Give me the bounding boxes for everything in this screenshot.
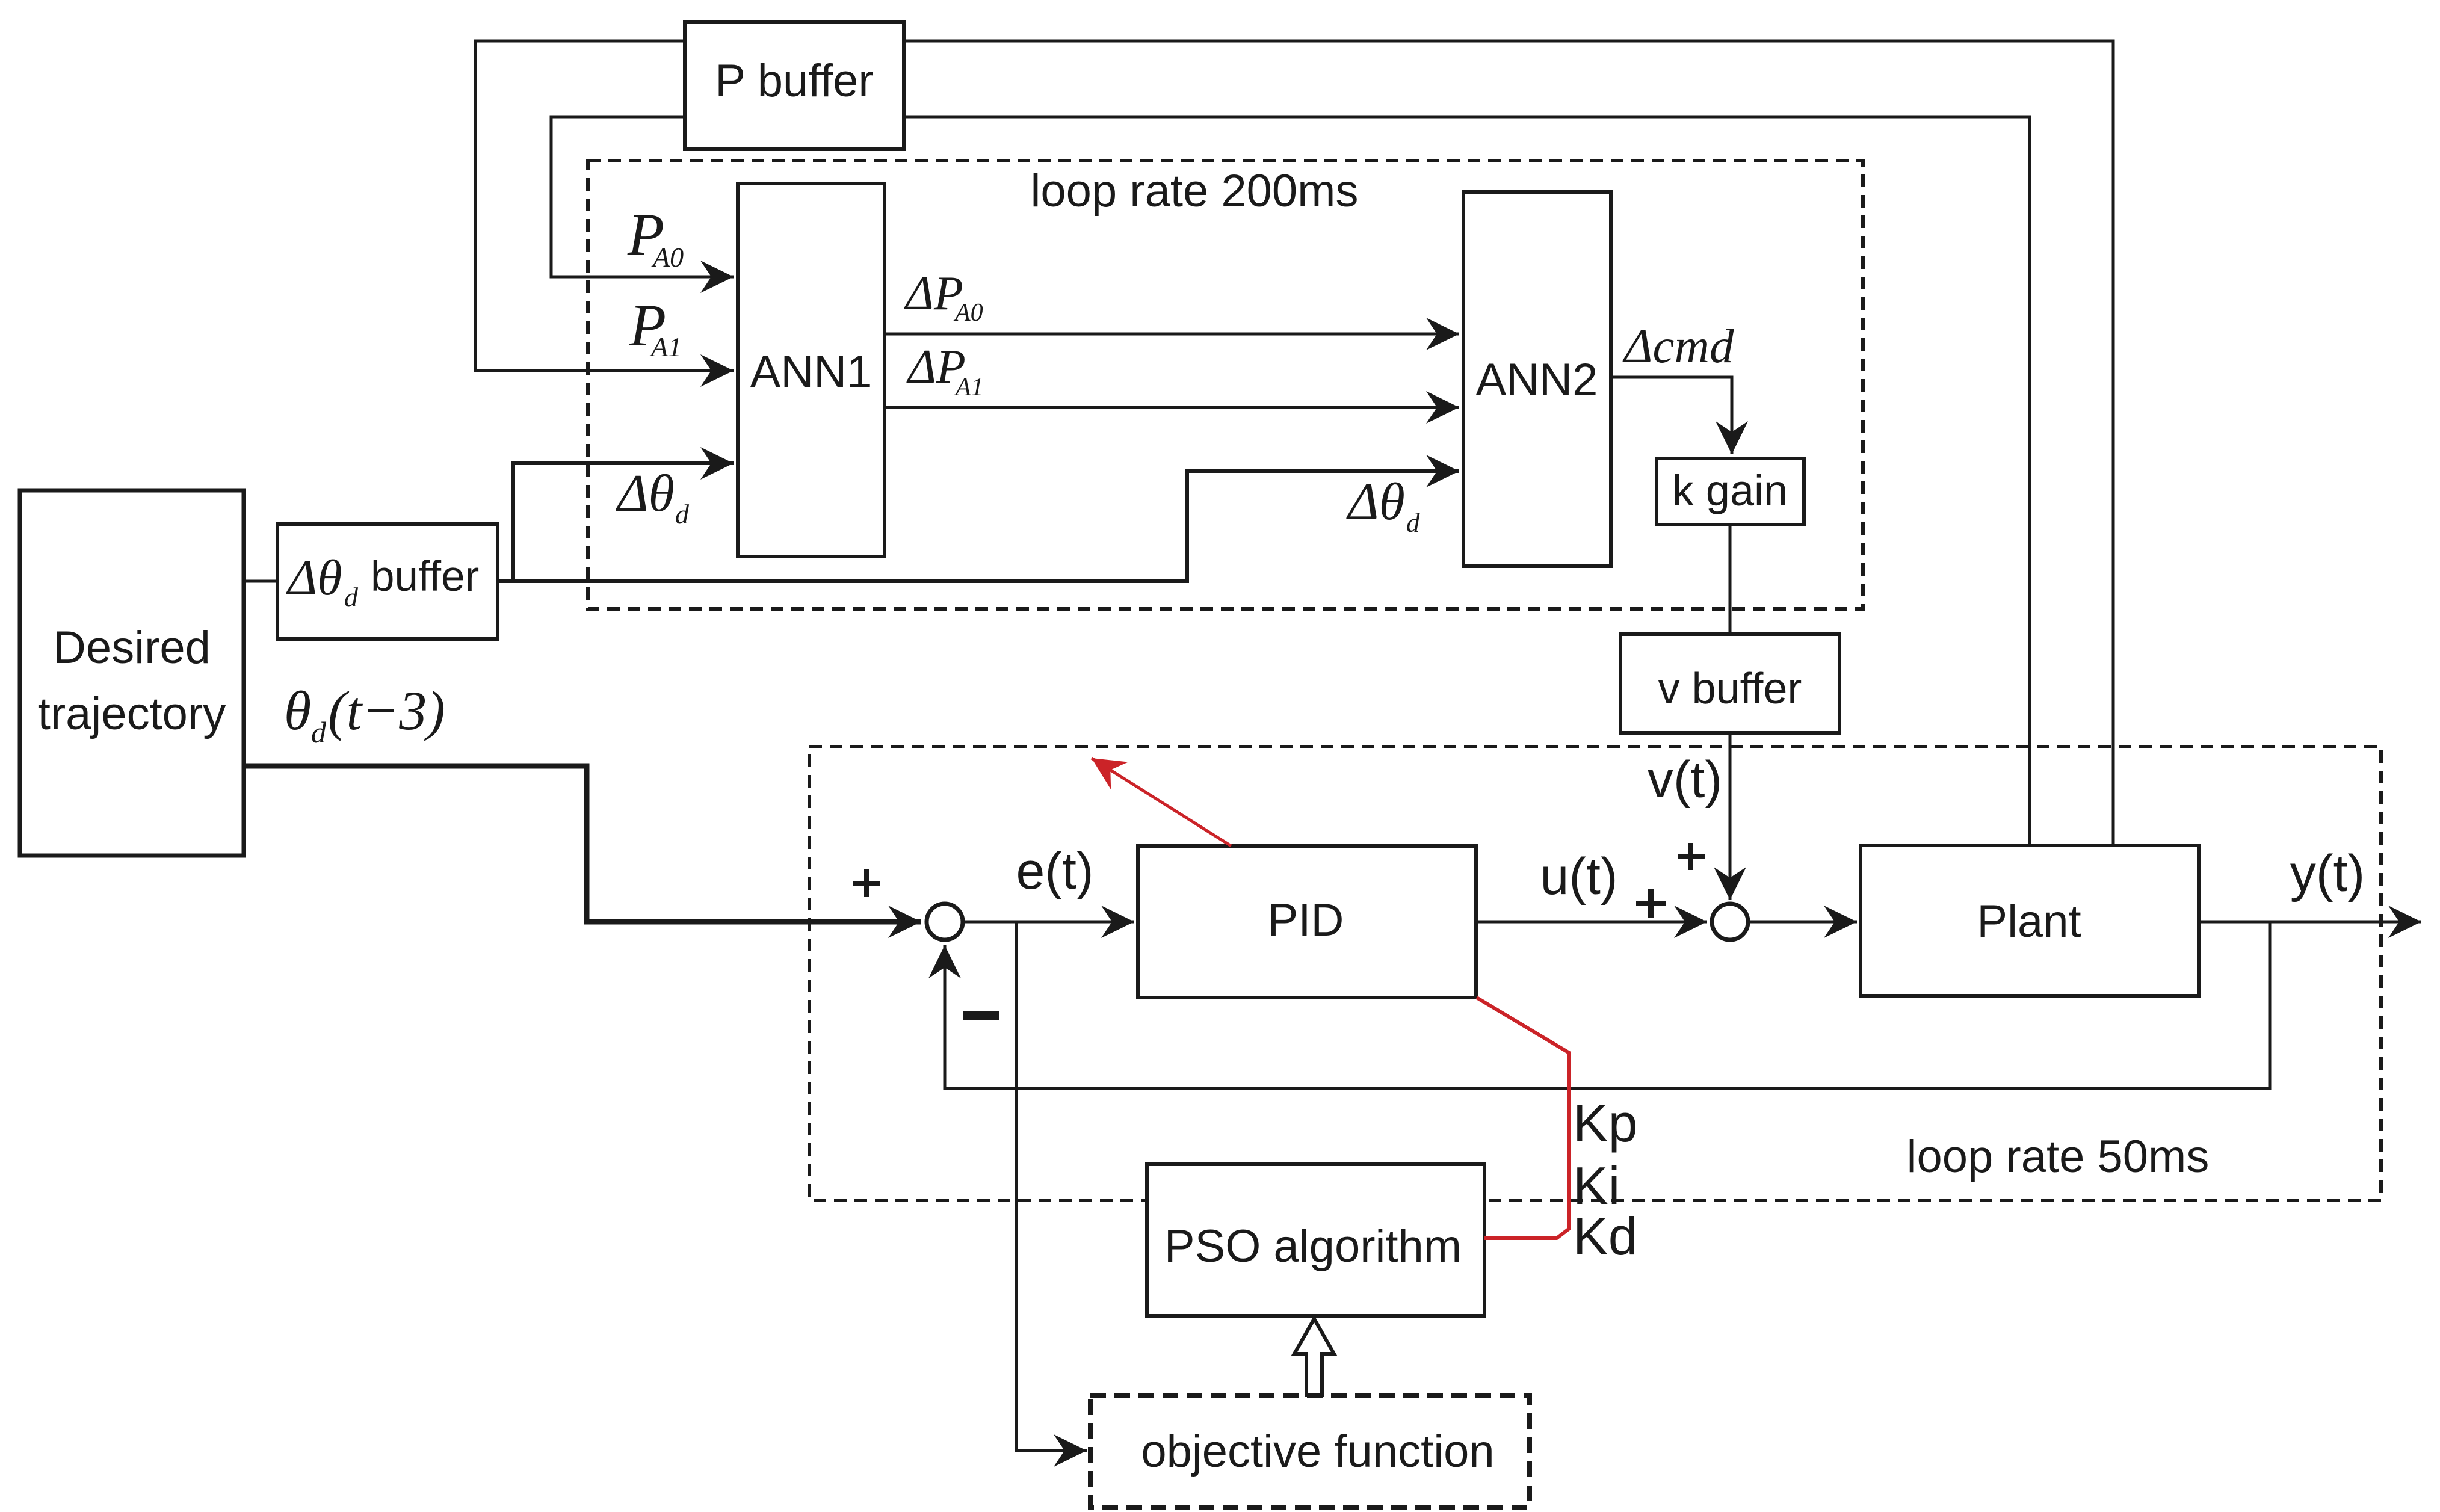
sum junction S1 — [927, 904, 963, 940]
svg-text:trajectory: trajectory — [38, 688, 226, 739]
wire plant to P buffer line B (lower) — [551, 117, 2030, 844]
hollow arrow objective function to PSO — [1294, 1319, 1334, 1395]
svg-text:u(t): u(t) — [1540, 848, 1618, 906]
wire ANN1 output dPA0 to ANN2 — [885, 333, 1459, 336]
svg-text:d: d — [311, 715, 327, 749]
red wire PID gains to PSO — [1477, 998, 1569, 1238]
svg-text:d: d — [344, 582, 359, 613]
minus sign at sum S1 — [963, 1011, 999, 1020]
svg-text:d: d — [675, 499, 690, 529]
svg-text:Δθ: Δθ — [616, 464, 675, 523]
wire sum S2 to Plant — [1750, 921, 1857, 924]
svg-text:buffer: buffer — [371, 553, 479, 600]
box PID — [1138, 846, 1476, 998]
box delta theta_d buffer — [277, 524, 498, 639]
svg-text:v(t): v(t) — [1648, 751, 1722, 809]
plus sign left of sum S2 — [1636, 889, 1666, 918]
sum junction S2 — [1712, 904, 1748, 940]
label delta theta_d at ANN2 — [1346, 473, 1420, 538]
svg-text:Plant: Plant — [1977, 896, 2081, 947]
svg-text:loop rate 50ms: loop rate 50ms — [1907, 1131, 2210, 1182]
box k gain — [1657, 458, 1804, 525]
label P_A1 — [629, 292, 682, 362]
svg-text:A0: A0 — [651, 242, 684, 273]
svg-text:ANN1: ANN1 — [750, 347, 873, 398]
box v buffer — [1620, 634, 1839, 733]
svg-text:objective function: objective function — [1141, 1426, 1494, 1477]
wire sum S1 to PID with e(t) — [965, 921, 1134, 924]
svg-text:A1: A1 — [954, 374, 984, 401]
svg-text:ΔP: ΔP — [904, 267, 963, 320]
svg-text:Desired: Desired — [53, 622, 211, 673]
svg-text:d: d — [1406, 508, 1420, 538]
svg-text:v buffer: v buffer — [1658, 665, 1802, 713]
box PSO algorithm — [1147, 1164, 1484, 1316]
svg-text:θ: θ — [284, 680, 311, 741]
svg-text:(t−3): (t−3) — [328, 680, 445, 741]
svg-text:Kd: Kd — [1573, 1206, 1638, 1266]
wire theta_d(t-3) from desired trajectory to sum junction S1 — [244, 766, 921, 922]
wire desired trajectory to buffer — [241, 580, 280, 583]
svg-text:y(t): y(t) — [2290, 845, 2365, 903]
wire branch buffer output to ANN1 theta input — [513, 463, 734, 581]
box Plant — [1861, 845, 2199, 996]
dashed box loop rate 50ms — [809, 747, 2381, 1200]
wire PID to sum junction S2 with u(t) — [1476, 921, 1707, 924]
svg-text:k gain: k gain — [1672, 467, 1788, 515]
svg-text:Kp: Kp — [1573, 1093, 1638, 1153]
wire feedback from y(t) to sum S1 minus input — [945, 922, 2270, 1088]
wire plant to P buffer line A (upper) — [475, 41, 2113, 844]
label theta_d(t-3) — [284, 680, 445, 749]
box Desired trajectory — [20, 490, 244, 856]
svg-text:A1: A1 — [649, 332, 682, 362]
wire k gain to v buffer to sum junction S2 — [1729, 525, 1732, 900]
svg-text:Δcmd: Δcmd — [1622, 319, 1734, 373]
box P buffer — [685, 22, 904, 149]
wire ANN1 output dPA1 to ANN2 — [885, 406, 1459, 409]
box ANN2 — [1463, 192, 1611, 566]
svg-text:Δθ: Δθ — [286, 550, 342, 606]
svg-text:loop rate 200ms: loop rate 200ms — [1031, 165, 1359, 217]
svg-text:A0: A0 — [953, 299, 983, 327]
svg-text:e(t): e(t) — [1016, 842, 1094, 900]
wire buffer output to ANN2 theta input — [498, 471, 1459, 581]
label dP_A1 — [906, 341, 984, 401]
dashed box loop rate 200ms — [588, 161, 1863, 609]
box ANN1 — [738, 184, 885, 557]
svg-text:Δθ: Δθ — [1346, 473, 1405, 531]
svg-text:ANN2: ANN2 — [1476, 354, 1598, 406]
red arrow PSO tuning to PID — [1092, 758, 1231, 846]
svg-text:PSO algorithm: PSO algorithm — [1164, 1221, 1462, 1272]
label dP_A0 — [904, 267, 983, 327]
dashed box objective function — [1090, 1395, 1530, 1507]
wire ANN2 dcmd to k gain — [1611, 377, 1732, 454]
plus sign at sum S1 — [853, 869, 880, 897]
svg-text:PID: PID — [1268, 895, 1344, 946]
svg-text:P buffer: P buffer — [715, 55, 873, 106]
wire Plant output y(t) — [2199, 921, 2421, 924]
label P_A0 — [627, 201, 684, 273]
wire e(t) branch to objective function — [1016, 922, 1087, 1451]
label delta theta_d at ANN1 — [616, 464, 690, 529]
plus sign above sum S2 — [1678, 843, 1705, 870]
